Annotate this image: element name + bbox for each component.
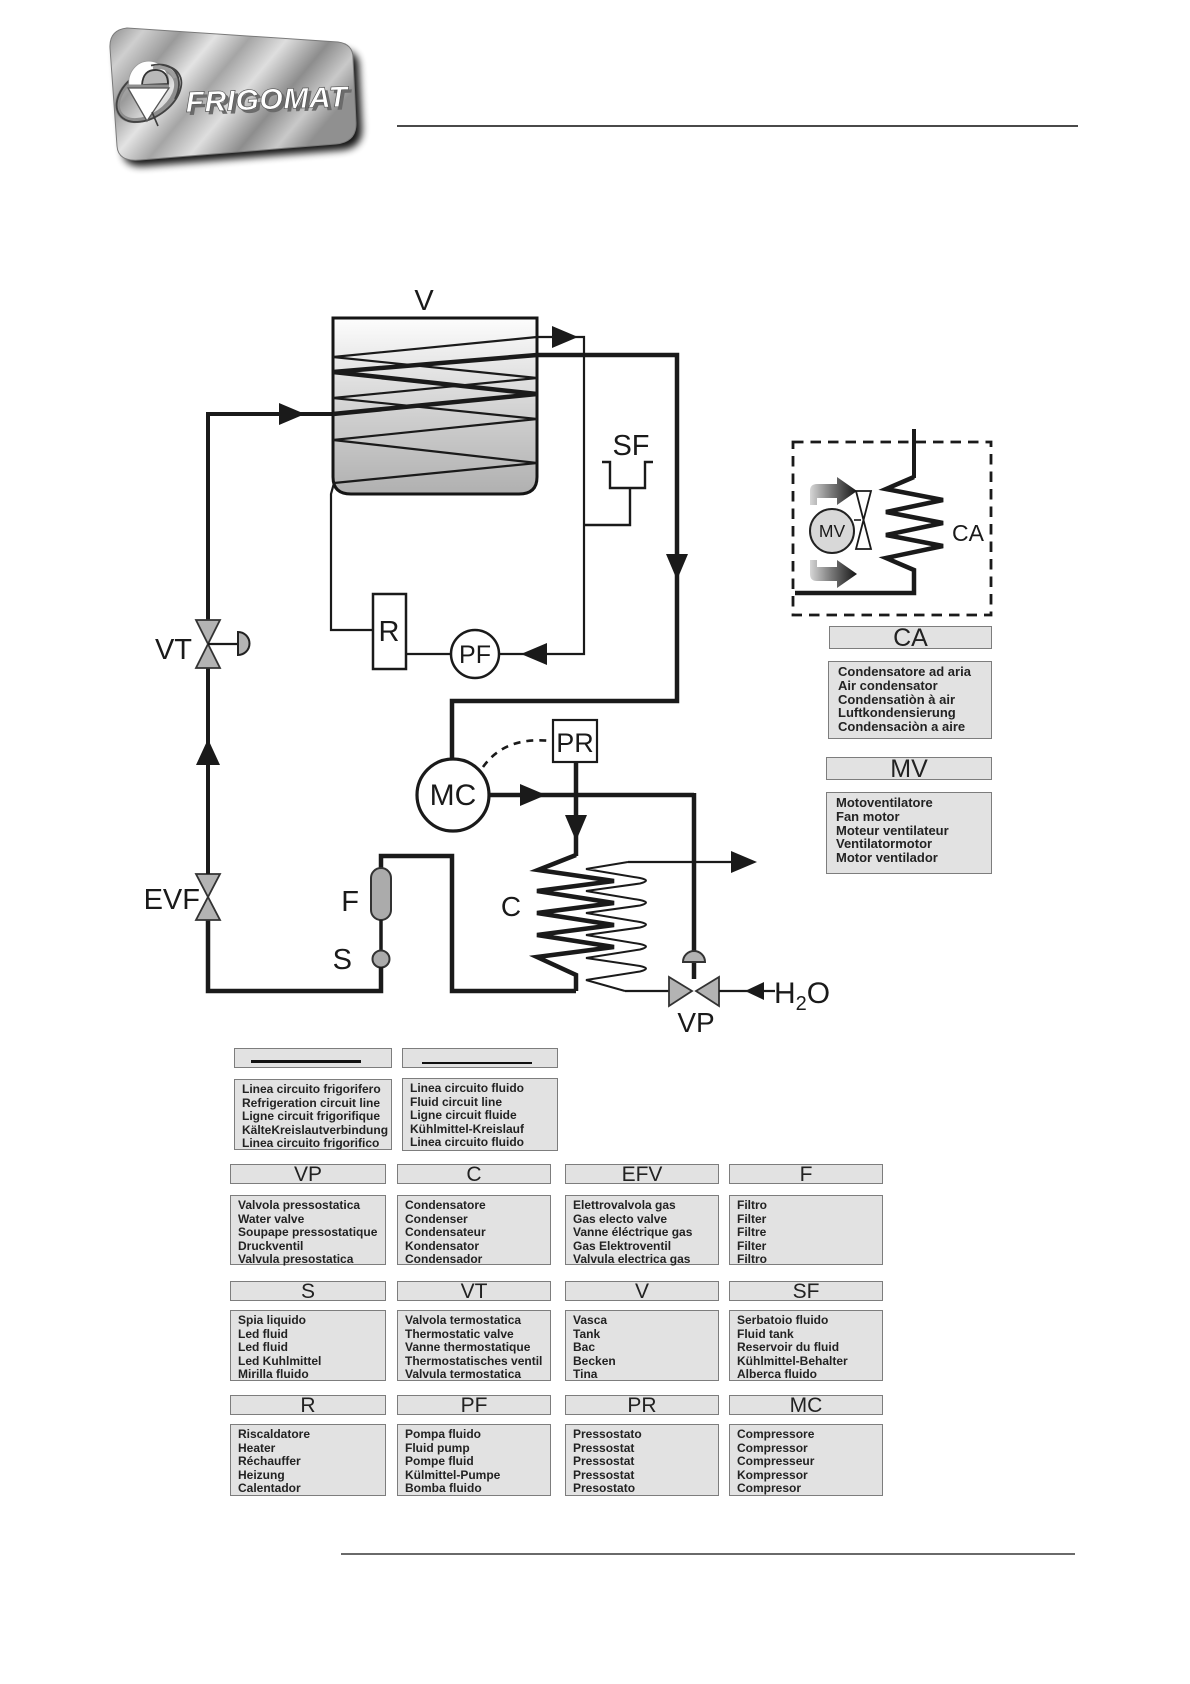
wire: condenser out to filter F (381, 856, 576, 991)
air flow arrow top (810, 477, 857, 505)
dashed control line MC to PR (483, 740, 551, 767)
legend: CA text (828, 661, 992, 739)
svg-text:PR: PR (556, 728, 594, 758)
legend: MV header (826, 757, 992, 780)
condenser C water coil (thin) (586, 862, 646, 991)
fluid pump PF (451, 630, 499, 678)
logo icon: ring arc over scoop (151, 65, 179, 99)
heater R (373, 594, 406, 669)
flow arrow into tank V (279, 403, 305, 425)
legend: refrigeration line sample (234, 1048, 392, 1068)
wire: EVF to VT (206, 666, 210, 874)
flow arrow MC discharge (520, 784, 546, 806)
legend: CA header (829, 626, 992, 649)
wire: junction down into condenser (574, 762, 579, 856)
svg-text:MV: MV (819, 521, 846, 541)
wire: S to EVF (208, 917, 381, 991)
svg-text:CA: CA (952, 520, 985, 546)
logo icon: cone (128, 88, 169, 121)
wire: fluid outlet from tank with arrow (499, 337, 584, 654)
tank V coil - thin back passes (333, 337, 537, 483)
wire: R to PF (406, 653, 451, 655)
table row 3 texts (230, 1424, 386, 1496)
svg-text:EVF: EVF (144, 884, 200, 916)
header rule (397, 125, 1078, 127)
logo icon: swirl ring band (108, 59, 186, 131)
flow arrow into PF (521, 643, 547, 665)
svg-text:SF: SF (612, 430, 649, 462)
footer rule (341, 1553, 1075, 1555)
svg-text:C: C (501, 891, 521, 922)
sight glass S (373, 951, 390, 968)
wire: MC discharge line (489, 793, 694, 798)
table row 3 headers (230, 1395, 386, 1415)
logo icon: shelf (128, 85, 169, 88)
compressor MC (417, 759, 489, 831)
svg-text:F: F (341, 886, 359, 918)
flow arrow into condenser (565, 815, 587, 841)
air flow arrow bottom (810, 560, 857, 588)
solenoid valve EVF (196, 874, 220, 897)
thermostatic valve VT (196, 620, 220, 644)
flow arrow down to MC (666, 554, 688, 580)
pressostat PR (553, 720, 597, 762)
fan blades (854, 519, 861, 521)
wire: water outlet with arrow (628, 861, 752, 863)
flow arrow up (196, 739, 220, 765)
filter F (371, 868, 391, 920)
fluid level sensor SF (584, 462, 653, 525)
table row 2 headers (230, 1281, 386, 1301)
wire: refrigerant thick line tank to MC (452, 355, 677, 759)
wire: pressure line down to VP (692, 793, 697, 979)
logo icon: ring outline (behind scoop) (106, 55, 191, 134)
water valve VP (683, 951, 705, 962)
svg-text:H2O: H2O (774, 977, 830, 1015)
flow arrow fluid out (552, 326, 578, 348)
CA coil (795, 477, 943, 593)
svg-text:VT: VT (155, 634, 192, 666)
svg-text:V: V (414, 285, 434, 317)
svg-text:R: R (379, 616, 400, 648)
schematic diagram (0, 280, 1190, 1050)
wire: refrigerant line from VT up and into tank V (208, 414, 333, 622)
legend: MV text (826, 792, 992, 874)
FRIGOMAT logo plate (70, 0, 410, 210)
svg-text:S: S (333, 944, 352, 976)
air condenser CA dashed enclosure (793, 442, 991, 615)
table row 1 headers (230, 1164, 386, 1184)
wire: F to S (379, 920, 383, 951)
table row 1 texts (230, 1195, 386, 1265)
legend: refrigeration line text (234, 1079, 392, 1150)
svg-text:MC: MC (430, 779, 477, 812)
tank V coil - thick front passes (333, 355, 537, 414)
condenser C refrigerant coil (thick) (537, 855, 614, 991)
svg-text:VP: VP (677, 1007, 714, 1038)
svg-text:PF: PF (459, 641, 491, 669)
wire: water coil to VP (625, 990, 670, 992)
tank V (333, 318, 537, 494)
wire: H2O inlet (719, 990, 775, 992)
legend: fluid line sample (402, 1048, 558, 1068)
wire: tank bottom to heater R (331, 483, 373, 630)
fan motor MV (810, 509, 854, 553)
table row 2 texts (230, 1310, 386, 1381)
wire into CA coil (912, 429, 916, 478)
logo icon: white dome scoop (129, 61, 169, 86)
legend: fluid line text (402, 1078, 558, 1151)
logo icon: swirl curl + shading (142, 70, 168, 85)
svg-text:FRIGOMAT: FRIGOMAT (185, 81, 350, 119)
